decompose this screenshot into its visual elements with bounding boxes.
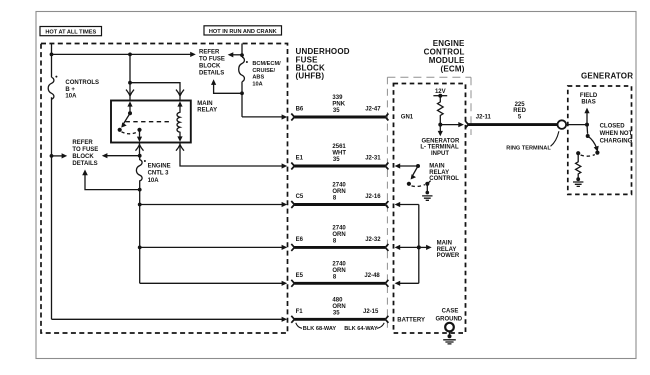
svg-text:MAIN: MAIN [197, 101, 212, 107]
wire with left arrow from BCM fuse node to refer note [228, 52, 242, 57]
svg-text:2561: 2561 [332, 144, 346, 150]
svg-text:J2-48: J2-48 [364, 273, 380, 279]
svg-text:35: 35 [333, 310, 340, 316]
svg-text:BLK 68-WAY: BLK 68-WAY [303, 326, 337, 332]
svg-text:TO FUSE: TO FUSE [72, 147, 98, 153]
svg-text:J2-31: J2-31 [365, 156, 381, 162]
node left bus refer junction [50, 154, 54, 158]
svg-text:GROUND: GROUND [435, 317, 462, 323]
value label 2561 WHT 35 [332, 144, 346, 163]
svg-text:(UHFB): (UHFB) [296, 72, 325, 81]
node switched feed junction [138, 154, 142, 158]
svg-text:ORN: ORN [332, 232, 345, 238]
fuse BCM/ECM/CRUISE/ABS 10A [239, 57, 281, 88]
wire with right arrow to main relay power label [419, 245, 432, 250]
wire branch with up arrow to refer note [211, 79, 242, 93]
relay K: main relay box [111, 101, 191, 143]
wire main relay feed branch [130, 54, 180, 100]
ground (ECM internal) [422, 184, 432, 201]
wire C5 feed with arrow [140, 202, 288, 207]
relay armature linkage (dashed) [126, 121, 173, 123]
node relay switch pivot [128, 111, 132, 115]
value label 2740 ORN 8 [332, 225, 346, 244]
value label 225 RED 5 [513, 102, 526, 121]
svg-text:TO FUSE: TO FUSE [199, 57, 225, 63]
wire 225 RED 5 to generator [465, 121, 557, 128]
wire C5 power input with left arrow [395, 202, 419, 207]
svg-text:E6: E6 [296, 237, 304, 243]
wire main relay control output with left arrow [395, 163, 418, 168]
svg-text:MAIN: MAIN [429, 164, 444, 170]
svg-text:BLOCK: BLOCK [199, 63, 221, 69]
wire with down arrow to generator input label [438, 125, 443, 137]
driver contact dashed link [412, 185, 425, 187]
wire distribution bus vertical [139, 190, 141, 284]
svg-text:10A: 10A [148, 178, 160, 184]
node BCM fuse top junction [240, 53, 244, 57]
svg-text:POWER: POWER [437, 253, 460, 259]
node relay feed T junction [128, 81, 132, 85]
relay switch arm with arrow [121, 113, 130, 127]
svg-text:B6: B6 [296, 107, 304, 113]
svg-text:GENERATOR: GENERATOR [422, 139, 460, 145]
svg-text:ORN: ORN [332, 268, 345, 274]
node driver contact [407, 182, 411, 186]
note REFER TO FUSE BLOCK DETAILS (top) [199, 50, 225, 77]
relay contact dashed arc [122, 132, 138, 134]
node E6 branch junction [138, 246, 142, 250]
wire E6 circuit through UHFB (2740 ORN) [291, 244, 388, 251]
generator switch pivot [586, 125, 590, 138]
svg-text:J2-15: J2-15 [363, 309, 379, 315]
svg-text:J2-32: J2-32 [365, 237, 381, 243]
wire E6 feed with arrow [140, 245, 288, 250]
svg-text:RELAY: RELAY [429, 170, 449, 176]
svg-text:CRUISE/: CRUISE/ [252, 68, 275, 74]
svg-text:J2-11: J2-11 [476, 114, 492, 120]
svg-text:RELAY: RELAY [197, 108, 217, 114]
stub to ground contact [427, 181, 430, 184]
svg-text:CONTROL: CONTROL [429, 176, 459, 182]
svg-text:RELAY: RELAY [437, 247, 457, 253]
wire E5 feed with arrow [140, 281, 288, 286]
svg-text:BATTERY: BATTERY [397, 318, 425, 324]
label GENERATOR L- TERMINAL INPUT [420, 139, 460, 157]
label FIELD BIAS [580, 93, 598, 105]
svg-text:10A: 10A [252, 82, 262, 88]
svg-text:225: 225 [515, 102, 526, 108]
svg-text:35: 35 [333, 157, 340, 163]
ground (generator) [573, 177, 583, 186]
svg-text:ORN: ORN [332, 304, 345, 310]
label box HOT IN RUN AND CRANK [204, 26, 282, 35]
svg-text:REFER: REFER [72, 140, 93, 146]
label BLK 68-WAY with leader [296, 323, 337, 332]
wire to J2-11 with right arrow [440, 122, 464, 127]
svg-text:ORN: ORN [332, 189, 345, 195]
driver switch arm with arrow [411, 166, 418, 180]
wire E5 circuit through UHFB (2740 ORN) [291, 280, 388, 287]
power 12V rail [433, 89, 447, 98]
label CLOSED WHEN NOT CHARGING [600, 124, 633, 145]
svg-text:J2-16: J2-16 [365, 194, 381, 200]
wire E1 circuit through UHFB (2561 WHT) [291, 163, 388, 170]
svg-text:CNTL 3: CNTL 3 [148, 171, 170, 177]
case ground terminal circle [445, 323, 454, 332]
node C5 branch junction [138, 203, 142, 207]
wire from hot-in-run boundary down to BCM fuse node [241, 44, 243, 58]
wire left bus vertical (B+ feed) [51, 44, 53, 320]
svg-text:HOT IN RUN AND CRANK: HOT IN RUN AND CRANK [209, 29, 277, 35]
wire branch with up arrow to refer note (lower) [82, 170, 140, 190]
wire F1 circuit through UHFB (480 ORN) [291, 316, 388, 323]
wire relay switch output to junction [139, 143, 141, 156]
wire relay switch common [129, 105, 131, 114]
connector halves above main relay [126, 90, 184, 96]
wire with right arrow from left bus to refer note [52, 153, 68, 158]
svg-text:480: 480 [332, 297, 343, 303]
node switch contact left [576, 151, 580, 155]
value label 339 PNK 35 [332, 95, 345, 114]
svg-text:GN1: GN1 [401, 114, 414, 120]
wire E5 power input with left arrow [395, 281, 419, 286]
svg-text:WHT: WHT [332, 151, 346, 157]
generator G1 dashed box [568, 86, 632, 194]
node driver ground contact [425, 182, 429, 186]
node BCM fuse bottom junction [240, 91, 244, 95]
svg-text:ABS: ABS [252, 74, 264, 80]
svg-text:E5: E5 [296, 273, 304, 279]
label RING TERMINAL with leader [506, 131, 559, 151]
label ENGINE CONTROL MODULE (ECM) [424, 39, 465, 73]
svg-text:CHARGING: CHARGING [600, 138, 633, 144]
svg-text:PNK: PNK [332, 102, 345, 108]
svg-text:C5: C5 [296, 194, 304, 200]
svg-text:2740: 2740 [332, 183, 346, 189]
ECM outer cover boundary (light dashed) [387, 77, 471, 135]
svg-text:F1: F1 [296, 309, 304, 315]
dashed boundary box (fuse block details region) [41, 44, 288, 334]
svg-text:BLK 64-WAY: BLK 64-WAY [344, 326, 378, 332]
svg-text:BIAS: BIAS [581, 100, 595, 106]
svg-text:RING TERMINAL: RING TERMINAL [506, 146, 551, 152]
wire relay switch output with down arrow [137, 130, 142, 142]
svg-text:MAIN: MAIN [437, 241, 452, 247]
svg-text:BCM/ECM/: BCM/ECM/ [252, 61, 281, 67]
svg-text:FIELD: FIELD [580, 93, 598, 99]
svg-text:CASE: CASE [442, 309, 459, 315]
svg-text:2740: 2740 [332, 225, 346, 231]
svg-text:B +: B + [65, 87, 75, 93]
svg-text:RED: RED [513, 108, 526, 114]
label BLK 64-WAY with leader [344, 323, 384, 332]
svg-text:ENGINE: ENGINE [148, 163, 171, 169]
svg-text:L- TERMINAL: L- TERMINAL [420, 145, 459, 151]
svg-text:J2-47: J2-47 [365, 107, 381, 113]
connector 64-way boundary (light dashed) [386, 77, 388, 330]
switch contact dashed link [581, 155, 595, 157]
wire top bus with arrow to refer note [52, 52, 196, 57]
main relay pin 30 entry arrow [127, 101, 132, 106]
value label 480 ORN 35 [332, 297, 345, 316]
label MAIN RELAY CONTROL [429, 164, 459, 182]
label MAIN RELAY [197, 101, 217, 114]
svg-text:2740: 2740 [332, 261, 346, 267]
label box HOT AT ALL TIMES [40, 27, 102, 36]
label UNDERHOOD FUSE BLOCK (UHFB) [296, 47, 350, 81]
node ECM sense junction [438, 123, 442, 127]
svg-text:BLOCK: BLOCK [72, 154, 94, 160]
node left bus top junction [50, 53, 54, 57]
generator switch arm with arrow [588, 136, 599, 152]
node control driver junction [416, 164, 420, 168]
svg-text:REFER: REFER [199, 50, 220, 56]
wire BCM fuse output down [241, 82, 243, 117]
wire C5 circuit through UHFB (2740 ORN) [291, 201, 388, 208]
svg-text:10A: 10A [65, 94, 77, 100]
relay coil entry arrow [177, 101, 182, 106]
wire ring terminal into generator [566, 124, 587, 126]
wire with up arrow to field bias label [584, 108, 589, 125]
module U1: ECM dashed box [394, 84, 466, 334]
fuse ENGINE CNTL 3 10A [136, 156, 170, 190]
note REFER TO FUSE BLOCK DETAILS (lower) [72, 140, 98, 167]
wire B6 circuit through UHFB (339 PNK) [291, 114, 388, 121]
node top bus junction at main relay branch [128, 53, 132, 57]
relay coil L1 [177, 105, 180, 138]
node generator L junction [585, 123, 589, 127]
value label 2740 ORN 8 [332, 183, 346, 202]
node relay contact output [137, 128, 141, 132]
relay coil exit arrow [177, 136, 182, 141]
svg-text:INPUT: INPUT [431, 151, 449, 157]
node switch contact right [595, 151, 599, 155]
svg-text:(ECM): (ECM) [440, 64, 464, 73]
ring terminal [558, 120, 567, 129]
svg-text:E1: E1 [296, 156, 304, 162]
wire with left arrow to refer note (lower) [102, 153, 140, 158]
svg-text:35: 35 [333, 108, 340, 114]
svg-text:CLOSED: CLOSED [600, 124, 626, 130]
label MAIN RELAY POWER [437, 241, 460, 260]
wire E6 power input with left arrow [395, 245, 419, 250]
svg-text:339: 339 [332, 95, 343, 101]
svg-text:WHEN NOT: WHEN NOT [600, 131, 633, 137]
value label 2740 ORN 8 [332, 261, 346, 280]
svg-text:GENERATOR: GENERATOR [581, 71, 633, 80]
wire B6 feed to fuse block [242, 114, 287, 119]
node relay contact left [118, 128, 122, 132]
wire power bus vertical inside ECM [418, 205, 420, 284]
svg-text:DETAILS: DETAILS [72, 161, 97, 167]
node engine fuse output junction [138, 188, 142, 192]
connector halves below main relay [136, 145, 185, 151]
svg-text:DETAILS: DETAILS [199, 70, 224, 76]
wire F1 feed from left bus with arrow [52, 317, 288, 322]
svg-text:HOT AT ALL TIMES: HOT AT ALL TIMES [45, 30, 96, 36]
node power bus junction [417, 245, 421, 249]
wire E1 feed from relay coil with arrow [180, 143, 287, 169]
resistor R (ECM pull-up) [438, 96, 444, 125]
fuse CONTROLS B+ 10A [48, 76, 99, 100]
svg-text:CONTROLS: CONTROLS [65, 80, 99, 86]
ground (case ground) [443, 331, 456, 344]
resistor (generator field) [576, 153, 581, 177]
label CASE GROUND [435, 309, 462, 323]
